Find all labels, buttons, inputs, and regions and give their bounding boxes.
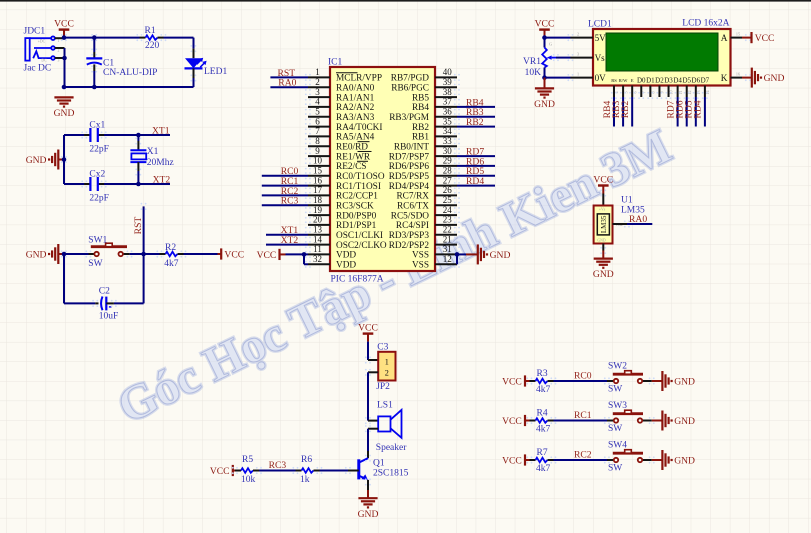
svg-text:VCC: VCC	[358, 322, 378, 333]
IC U1 IC1 PIC16F877A body	[328, 58, 435, 285]
svg-text:SW: SW	[608, 424, 622, 434]
wire VSS pins 31,12 to GND	[455, 252, 478, 264]
wire RST node down to C2	[114, 254, 144, 303]
svg-text:VCC: VCC	[535, 18, 555, 29]
power VCC (speaker)	[358, 322, 378, 341]
IC1 pin 6 (RA4/T0CKI)	[305, 116, 383, 133]
LCD pin 4 (RS)	[611, 78, 619, 99]
net label RST (vertical)	[133, 217, 144, 235]
svg-text:3: 3	[577, 51, 579, 56]
svg-text:XT2: XT2	[153, 175, 171, 186]
svg-text:14: 14	[313, 234, 323, 244]
svg-text:GND: GND	[26, 155, 47, 166]
net label RD6	[466, 156, 484, 167]
wire RC1	[554, 420, 608, 422]
wire SW4 to GND	[652, 459, 663, 461]
svg-text:Vs: Vs	[595, 53, 606, 63]
wire JP2 to speaker	[368, 372, 378, 420]
svg-text:RB2: RB2	[620, 101, 631, 119]
svg-text:4k7: 4k7	[536, 424, 551, 434]
IC1 pin 19 (RD0/PSP0)	[305, 205, 377, 222]
power VCC (input)	[54, 18, 74, 37]
svg-text:18: 18	[313, 195, 323, 205]
svg-text:1: 1	[58, 39, 60, 43]
wire RST to pin1	[270, 76, 308, 78]
svg-text:31: 31	[443, 244, 452, 254]
svg-text:R4: R4	[537, 409, 548, 419]
svg-text:4k7: 4k7	[164, 259, 179, 269]
wire RD4 from IC	[457, 185, 495, 187]
wire LM35 Vout (RA0)	[613, 223, 653, 225]
svg-text:SW4: SW4	[608, 440, 627, 450]
IC1 pin 15 (RC0/T1OSO)	[305, 166, 385, 183]
potentiometer VR1	[523, 38, 559, 79]
svg-text:R2: R2	[165, 243, 176, 253]
svg-text:C3: C3	[377, 342, 388, 352]
wire RC0 to IC	[262, 175, 308, 177]
power VCC (reset)	[221, 248, 244, 260]
sensor U1 LM35	[594, 189, 645, 254]
LCD pin 7 (D0)	[637, 77, 646, 100]
svg-text:2: 2	[315, 77, 320, 87]
IC1 pin 18 (RC3/SCK)	[305, 195, 374, 212]
svg-text:+DC: +DC	[38, 39, 46, 43]
svg-text:VCC: VCC	[210, 466, 230, 477]
wire crystal left rail	[63, 135, 65, 184]
svg-text:RD4: RD4	[466, 176, 484, 187]
wire R2 to VCC	[184, 253, 222, 255]
IC1 pin 36 (RB3/PGM)	[389, 107, 460, 124]
power VCC (LM35)	[593, 174, 613, 193]
svg-text:12: 12	[443, 254, 452, 264]
svg-text:R1: R1	[145, 26, 156, 36]
svg-text:RD6/PSP6: RD6/PSP6	[389, 162, 430, 172]
svg-text:SW3: SW3	[608, 401, 627, 411]
IC1 pin 35 (RB2)	[412, 116, 460, 133]
svg-text:VCC: VCC	[755, 33, 775, 44]
net label RB3	[466, 107, 484, 118]
svg-text:0V: 0V	[595, 73, 607, 83]
svg-text:20Mhz: 20Mhz	[147, 158, 174, 168]
ground (LCD K)	[742, 68, 784, 88]
svg-text:RB5: RB5	[412, 93, 429, 103]
wire VCC rail top	[64, 37, 140, 39]
svg-text:RD0/PSP0: RD0/PSP0	[336, 211, 377, 221]
IC1 pin 1 (MCLR/VPP)	[305, 67, 382, 84]
svg-text:XT2: XT2	[281, 235, 299, 246]
wire R6 to Q1 base	[320, 470, 349, 472]
svg-text:25: 25	[443, 195, 453, 205]
svg-text:37: 37	[443, 97, 453, 107]
IC1 pin 38 (RB5)	[412, 87, 460, 104]
wire VCC to pins 11,32	[280, 252, 309, 264]
svg-text:VCC: VCC	[502, 455, 522, 466]
wire jack pins 2,3 to GND rail	[55, 48, 65, 87]
svg-text:11: 11	[313, 244, 322, 254]
svg-text:3: 3	[315, 87, 320, 97]
wire XT2 to pin14	[266, 244, 308, 246]
svg-text:RC0: RC0	[574, 371, 592, 382]
svg-text:10K: 10K	[525, 68, 542, 78]
wire RB3 from IC	[457, 116, 495, 118]
svg-text:32: 32	[313, 254, 322, 264]
svg-text:RB3/PGM: RB3/PGM	[389, 113, 429, 123]
net label RST	[278, 68, 296, 79]
net label XT1 (IC)	[281, 225, 299, 236]
wire speaker to Q1 collector	[367, 429, 369, 459]
svg-text:1: 1	[385, 357, 389, 366]
ground (LM35)	[593, 244, 614, 281]
svg-text:20: 20	[313, 215, 323, 225]
svg-text:GND: GND	[674, 376, 695, 387]
svg-text:R7: R7	[537, 448, 548, 458]
svg-text:CN-ALU-DIP: CN-ALU-DIP	[103, 68, 157, 78]
svg-text:34: 34	[443, 126, 453, 136]
net label RB2	[466, 117, 484, 128]
svg-text:XT1: XT1	[152, 126, 170, 137]
svg-text:6: 6	[315, 116, 320, 126]
svg-text:2: 2	[58, 49, 60, 53]
svg-text:K: K	[721, 74, 728, 84]
svg-text:VDD: VDD	[336, 261, 356, 271]
IC1 pin 25 (RC6/TX)	[397, 195, 460, 212]
svg-text:U1: U1	[621, 196, 633, 206]
IC1 pin 4 (RA2/AN2)	[305, 97, 375, 114]
svg-text:RC6/TX: RC6/TX	[397, 202, 429, 212]
wire R5 to R6 (RC3)	[259, 470, 296, 472]
svg-text:GND: GND	[534, 99, 555, 110]
wire RD5 from IC	[457, 175, 495, 177]
svg-text:VCC: VCC	[593, 174, 613, 185]
svg-text:RA2/AN2: RA2/AN2	[336, 103, 375, 113]
svg-text:24: 24	[443, 205, 453, 215]
IC1 pin 14 (OSC2/CLKO)	[305, 234, 387, 251]
LCD pin 5 (R/W)	[619, 78, 629, 99]
svg-text:RC3/SCK: RC3/SCK	[336, 202, 374, 212]
svg-text:VCC: VCC	[502, 376, 522, 387]
svg-text:35: 35	[443, 116, 453, 126]
capacitor C1	[86, 38, 157, 87]
power VCC (LCD A)	[742, 32, 774, 44]
ground (SW2)	[662, 371, 695, 391]
svg-text:X1: X1	[147, 147, 159, 157]
svg-text:LS1: LS1	[377, 400, 393, 410]
svg-text:27: 27	[443, 175, 453, 185]
svg-text:Speaker: Speaker	[376, 443, 407, 453]
svg-text:MCLR/VPP: MCLR/VPP	[336, 74, 382, 84]
svg-text:16: 16	[313, 175, 323, 185]
svg-text:SW: SW	[608, 463, 622, 473]
wire SW1 to RST node	[130, 253, 160, 255]
svg-text:D4: D4	[673, 77, 682, 85]
LCD pin 15 (A)	[721, 31, 751, 44]
LCD pin 12 (D5)	[682, 77, 691, 100]
svg-text:7: 7	[315, 126, 320, 136]
IC1 pin 24 (RC5/SDO)	[391, 205, 460, 222]
ground (IC VSS)	[478, 244, 511, 264]
svg-text:VR1: VR1	[523, 57, 541, 67]
wire Q1 emitter to GND	[367, 480, 369, 498]
LCD pin 2 (5V)	[567, 31, 606, 43]
ground (power input)	[54, 97, 75, 119]
power VCC (pin 11)	[257, 249, 280, 261]
svg-text:VSS: VSS	[412, 261, 429, 271]
switch SW2	[604, 361, 655, 394]
wire RD7 from IC	[457, 155, 495, 157]
svg-text:10k: 10k	[241, 475, 256, 485]
svg-text:R/W: R/W	[619, 78, 628, 83]
svg-text:R6: R6	[301, 455, 312, 465]
svg-text:RB4: RB4	[412, 103, 429, 113]
svg-text:RB7/PGD: RB7/PGD	[391, 74, 430, 84]
wire RD5 (LCD)	[695, 97, 697, 127]
net label RB2 (LCD)	[620, 101, 631, 119]
IC1 pin 3 (RA1/AN1)	[305, 87, 375, 104]
IC1 pin 16 (RC1/T1OSI)	[305, 175, 381, 192]
net label RD6 (LCD)	[675, 100, 686, 118]
IC1 pin 33 (RB0/INT)	[394, 136, 460, 153]
junction RST node	[141, 252, 146, 257]
svg-text:C1: C1	[103, 59, 114, 69]
wire VR1 to LCD 0V	[545, 77, 571, 79]
wire RB4 from IC	[457, 106, 495, 108]
IC1 pin 2 (RA0/AN0)	[305, 77, 375, 94]
IC1 pin 29 (RD6/PSP6)	[389, 156, 460, 173]
IC1 pin 31 (VSS)	[412, 244, 460, 261]
svg-text:R3: R3	[537, 369, 548, 379]
svg-text:23: 23	[443, 215, 453, 225]
svg-text:SW1: SW1	[88, 236, 107, 246]
svg-text:RD4/PSP4: RD4/PSP4	[389, 182, 430, 192]
IC1 pin 27 (RD4/PSP4)	[389, 175, 460, 192]
resistor R7	[526, 448, 556, 474]
svg-text:IC1: IC1	[328, 58, 343, 68]
junction C1 top	[91, 34, 97, 41]
LCD screen	[606, 33, 718, 71]
svg-text:15: 15	[736, 31, 740, 36]
net label RD4 (LCD)	[693, 100, 704, 118]
net label RC3	[281, 196, 299, 207]
ground (crystal)	[26, 150, 64, 170]
resistor R5	[232, 455, 262, 485]
IC1 pin 7 (RA5/AN4)	[305, 126, 375, 143]
svg-text:2: 2	[577, 31, 579, 36]
IC1 pin 37 (RB4)	[412, 97, 460, 114]
svg-text:5V: 5V	[595, 33, 607, 43]
LCD pin 1 (0V)	[567, 71, 606, 83]
svg-text:39: 39	[443, 77, 453, 87]
ground (VR1)	[534, 78, 555, 110]
svg-text:RST: RST	[133, 217, 144, 235]
LCD pin 13 (D6)	[692, 77, 701, 100]
svg-text:GND: GND	[358, 509, 379, 520]
junction VR1 top	[542, 35, 547, 40]
wire VCC to JP2 pin1	[368, 342, 378, 360]
svg-text:9: 9	[315, 146, 320, 156]
svg-text:13: 13	[313, 225, 323, 235]
net label RC1	[281, 176, 299, 187]
net label RC2	[574, 450, 592, 461]
svg-text:RC5/SDO: RC5/SDO	[391, 211, 430, 221]
header JP2	[365, 342, 396, 392]
net label XT2 (IC)	[281, 235, 299, 246]
junction X1 top	[136, 133, 141, 138]
svg-text:4k7: 4k7	[536, 385, 551, 395]
IC1 pin 21 (RD2/PSP2)	[389, 234, 460, 251]
svg-text:D2: D2	[655, 77, 664, 85]
svg-text:1: 1	[577, 71, 579, 76]
net label RC3	[269, 460, 287, 471]
IC1 pin 22 (RD3/PSP3)	[389, 225, 460, 242]
net label RA0	[278, 78, 296, 89]
LCD pin 16 (K)	[721, 71, 751, 84]
svg-text:RC4/SPI: RC4/SPI	[396, 221, 429, 231]
ground (Q1)	[358, 498, 379, 520]
IC1 pin 32 (VDD)	[305, 254, 357, 271]
svg-text:21: 21	[443, 234, 452, 244]
svg-text:VCC: VCC	[54, 18, 74, 29]
svg-text:JDC1: JDC1	[24, 26, 46, 36]
svg-text:Cx1: Cx1	[89, 121, 105, 131]
net label RB4 (LCD)	[602, 101, 613, 119]
svg-text:JP2: JP2	[376, 382, 390, 392]
net label RC2	[281, 186, 299, 197]
IC1 pin 20 (RD1/PSP1)	[305, 215, 377, 232]
net label RB4	[466, 97, 484, 108]
junction X1 bottom	[136, 182, 141, 187]
IC1 pin 34 (RB1)	[412, 126, 460, 143]
svg-text:LCD1: LCD1	[588, 19, 612, 29]
svg-text:RB0/INT: RB0/INT	[394, 143, 429, 153]
IC1 pin 30 (RD7/PSP7)	[389, 146, 460, 163]
svg-text:+Vs: +Vs	[599, 208, 606, 212]
LCD pin 14 (D7)	[701, 77, 710, 100]
svg-text:33: 33	[443, 136, 453, 146]
svg-text:RC2: RC2	[574, 450, 592, 461]
wire XT1 net	[64, 134, 170, 136]
svg-text:GND: GND	[593, 269, 614, 280]
svg-text:22pF: 22pF	[89, 144, 109, 154]
svg-text:22pF: 22pF	[89, 193, 109, 203]
svg-text:4: 4	[315, 97, 320, 107]
IC1 pin 13 (OSC1/CLKI)	[305, 225, 383, 242]
svg-text:RS: RS	[611, 78, 617, 83]
wire RC3 to IC	[262, 204, 308, 206]
svg-text:RB6/PGC: RB6/PGC	[391, 84, 429, 94]
LCD pin 8 (D1)	[646, 77, 655, 100]
svg-text:Q1: Q1	[373, 459, 385, 469]
svg-text:OSC1/CLKI: OSC1/CLKI	[336, 231, 383, 241]
wire RB2 from IC	[457, 126, 495, 128]
LCD pin 3 (Vs)	[567, 51, 605, 63]
svg-text:26: 26	[443, 185, 453, 195]
svg-text:GND: GND	[674, 455, 695, 466]
junction jack pin3	[62, 56, 67, 61]
svg-text:RD3/PSP3: RD3/PSP3	[389, 231, 430, 241]
wire VCC to R4	[525, 420, 530, 422]
svg-text:29: 29	[443, 156, 453, 166]
svg-text:C2: C2	[99, 286, 110, 296]
resistor R2	[156, 243, 186, 269]
wire RD6 from IC	[457, 165, 495, 167]
IC1 pin 11 (VDD)	[305, 244, 357, 261]
net label RD7 (LCD)	[665, 100, 676, 118]
IC1 pin 17 (RC2/CCP1)	[305, 185, 378, 202]
net label XT1	[152, 126, 170, 137]
svg-text:30: 30	[443, 146, 453, 156]
wire jack pin1 to VCC node	[55, 34, 67, 41]
svg-text:D7: D7	[701, 77, 710, 85]
svg-text:VSS: VSS	[412, 251, 429, 261]
svg-text:RE2/CS: RE2/CS	[336, 162, 366, 172]
svg-text:LED1: LED1	[204, 67, 227, 77]
wire R1 to LED1	[164, 38, 194, 49]
wire SW2 to GND	[652, 380, 663, 382]
LCD pin 11 (D4)	[673, 77, 682, 100]
svg-text:19: 19	[313, 205, 323, 215]
speaker LS1	[365, 400, 407, 453]
power VCC (R7 row)	[502, 454, 525, 466]
svg-text:28: 28	[443, 166, 453, 176]
svg-text:GND: GND	[490, 250, 511, 261]
wire RC2 to IC	[262, 194, 308, 196]
svg-text:D5: D5	[682, 77, 691, 85]
svg-text:RA0/AN0: RA0/AN0	[336, 84, 375, 94]
net label RD4	[466, 176, 484, 187]
svg-text:RC3: RC3	[269, 460, 287, 471]
svg-text:RC7/RX: RC7/RX	[396, 192, 429, 202]
connector JDC1 (Jac DC)	[24, 26, 60, 73]
wire wiper to LCD Vs	[556, 57, 571, 59]
svg-text:2: 2	[385, 368, 389, 377]
ground (SW3)	[662, 411, 695, 431]
svg-text:RB1: RB1	[412, 133, 429, 143]
ground (reset)	[26, 244, 64, 264]
svg-text:D6: D6	[692, 77, 701, 85]
capacitor Cx2	[81, 169, 109, 203]
svg-text:22: 22	[443, 225, 452, 235]
svg-text:GND: GND	[764, 73, 785, 84]
wire LED to GND rail	[64, 78, 194, 87]
svg-text:RC3: RC3	[281, 196, 299, 207]
wire RC1 to IC	[262, 185, 308, 187]
svg-text:1k: 1k	[300, 475, 310, 485]
LCD module LCD1 body	[588, 18, 731, 85]
svg-text:RD4: RD4	[693, 100, 704, 118]
LED LED1	[185, 45, 228, 82]
IC1 pin 28 (RD5/PSP5)	[389, 166, 460, 183]
transistor Q1 2SC1815	[345, 455, 409, 486]
svg-text:RA3/AN3: RA3/AN3	[336, 113, 375, 123]
svg-text:VCC: VCC	[502, 416, 522, 427]
svg-text:D3: D3	[664, 77, 673, 85]
svg-text:1: 1	[315, 67, 320, 77]
svg-text:RD1/PSP1: RD1/PSP1	[336, 221, 377, 231]
wire RB2 (LCD)	[631, 97, 633, 127]
wire SW3 to GND	[652, 420, 663, 422]
junction reset gnd	[61, 250, 67, 257]
svg-text:220: 220	[145, 41, 160, 51]
IC1 pin 40 (RB7/PGD)	[391, 67, 460, 84]
svg-text:RA0: RA0	[278, 78, 296, 89]
wire RC0	[554, 380, 608, 382]
wire RD4 (LCD)	[704, 97, 706, 127]
svg-text:R5: R5	[242, 455, 253, 465]
IC1 pin 39 (RB6/PGC)	[391, 77, 460, 94]
svg-text:RA4/T0CKI: RA4/T0CKI	[336, 123, 383, 133]
wire XT1 to pin13	[266, 234, 308, 236]
power VCC (R3 row)	[502, 375, 525, 387]
